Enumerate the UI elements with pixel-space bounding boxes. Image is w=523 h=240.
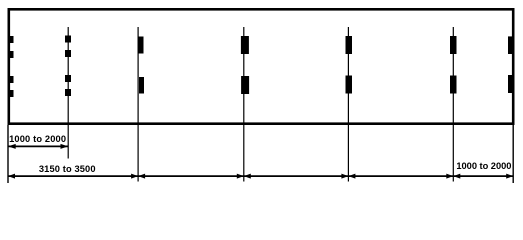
svg-text:1000 to 2000: 1000 to 2000 [456,161,511,171]
svg-text:1000 to 2000: 1000 to 2000 [9,134,66,144]
svg-text:3150 to 3500: 3150 to 3500 [39,164,96,174]
dimension line 1 (1000 to 2000, left) [8,144,68,149]
x=348.4 post markers (2 tall) [346,36,353,94]
arrowhead at left end [8,174,15,179]
x=453.3 post markers (2 tall) [450,36,457,94]
right border extension line [512,125,514,183]
wall outline (outer rectangle) [9,9,513,123]
arrow pair at x=453.3 [446,174,453,179]
x=68 fixing markers (4 small) [65,36,71,97]
post line at x=243.5 [243,27,245,182]
x=243.5 post markers (2 tall) [241,36,249,94]
post line at x=68 [67,27,69,159]
left border fixing markers (4 small) [9,36,14,97]
arrowhead at right end [506,174,513,179]
arrow pair at x=243.5 [237,174,244,179]
arrow pair at x=348.4 [341,174,348,179]
post line at x=453.3 [452,27,454,182]
x=138 post markers (2 tall) [139,37,145,94]
left border extension line [7,125,9,183]
arrow pair at x=138 [131,174,138,179]
dimension line 2 (bottom, full width) [8,175,513,177]
right border markers (2 tall) [508,36,513,93]
post line at x=138 [137,27,139,182]
post line at x=348.4 [347,27,349,182]
